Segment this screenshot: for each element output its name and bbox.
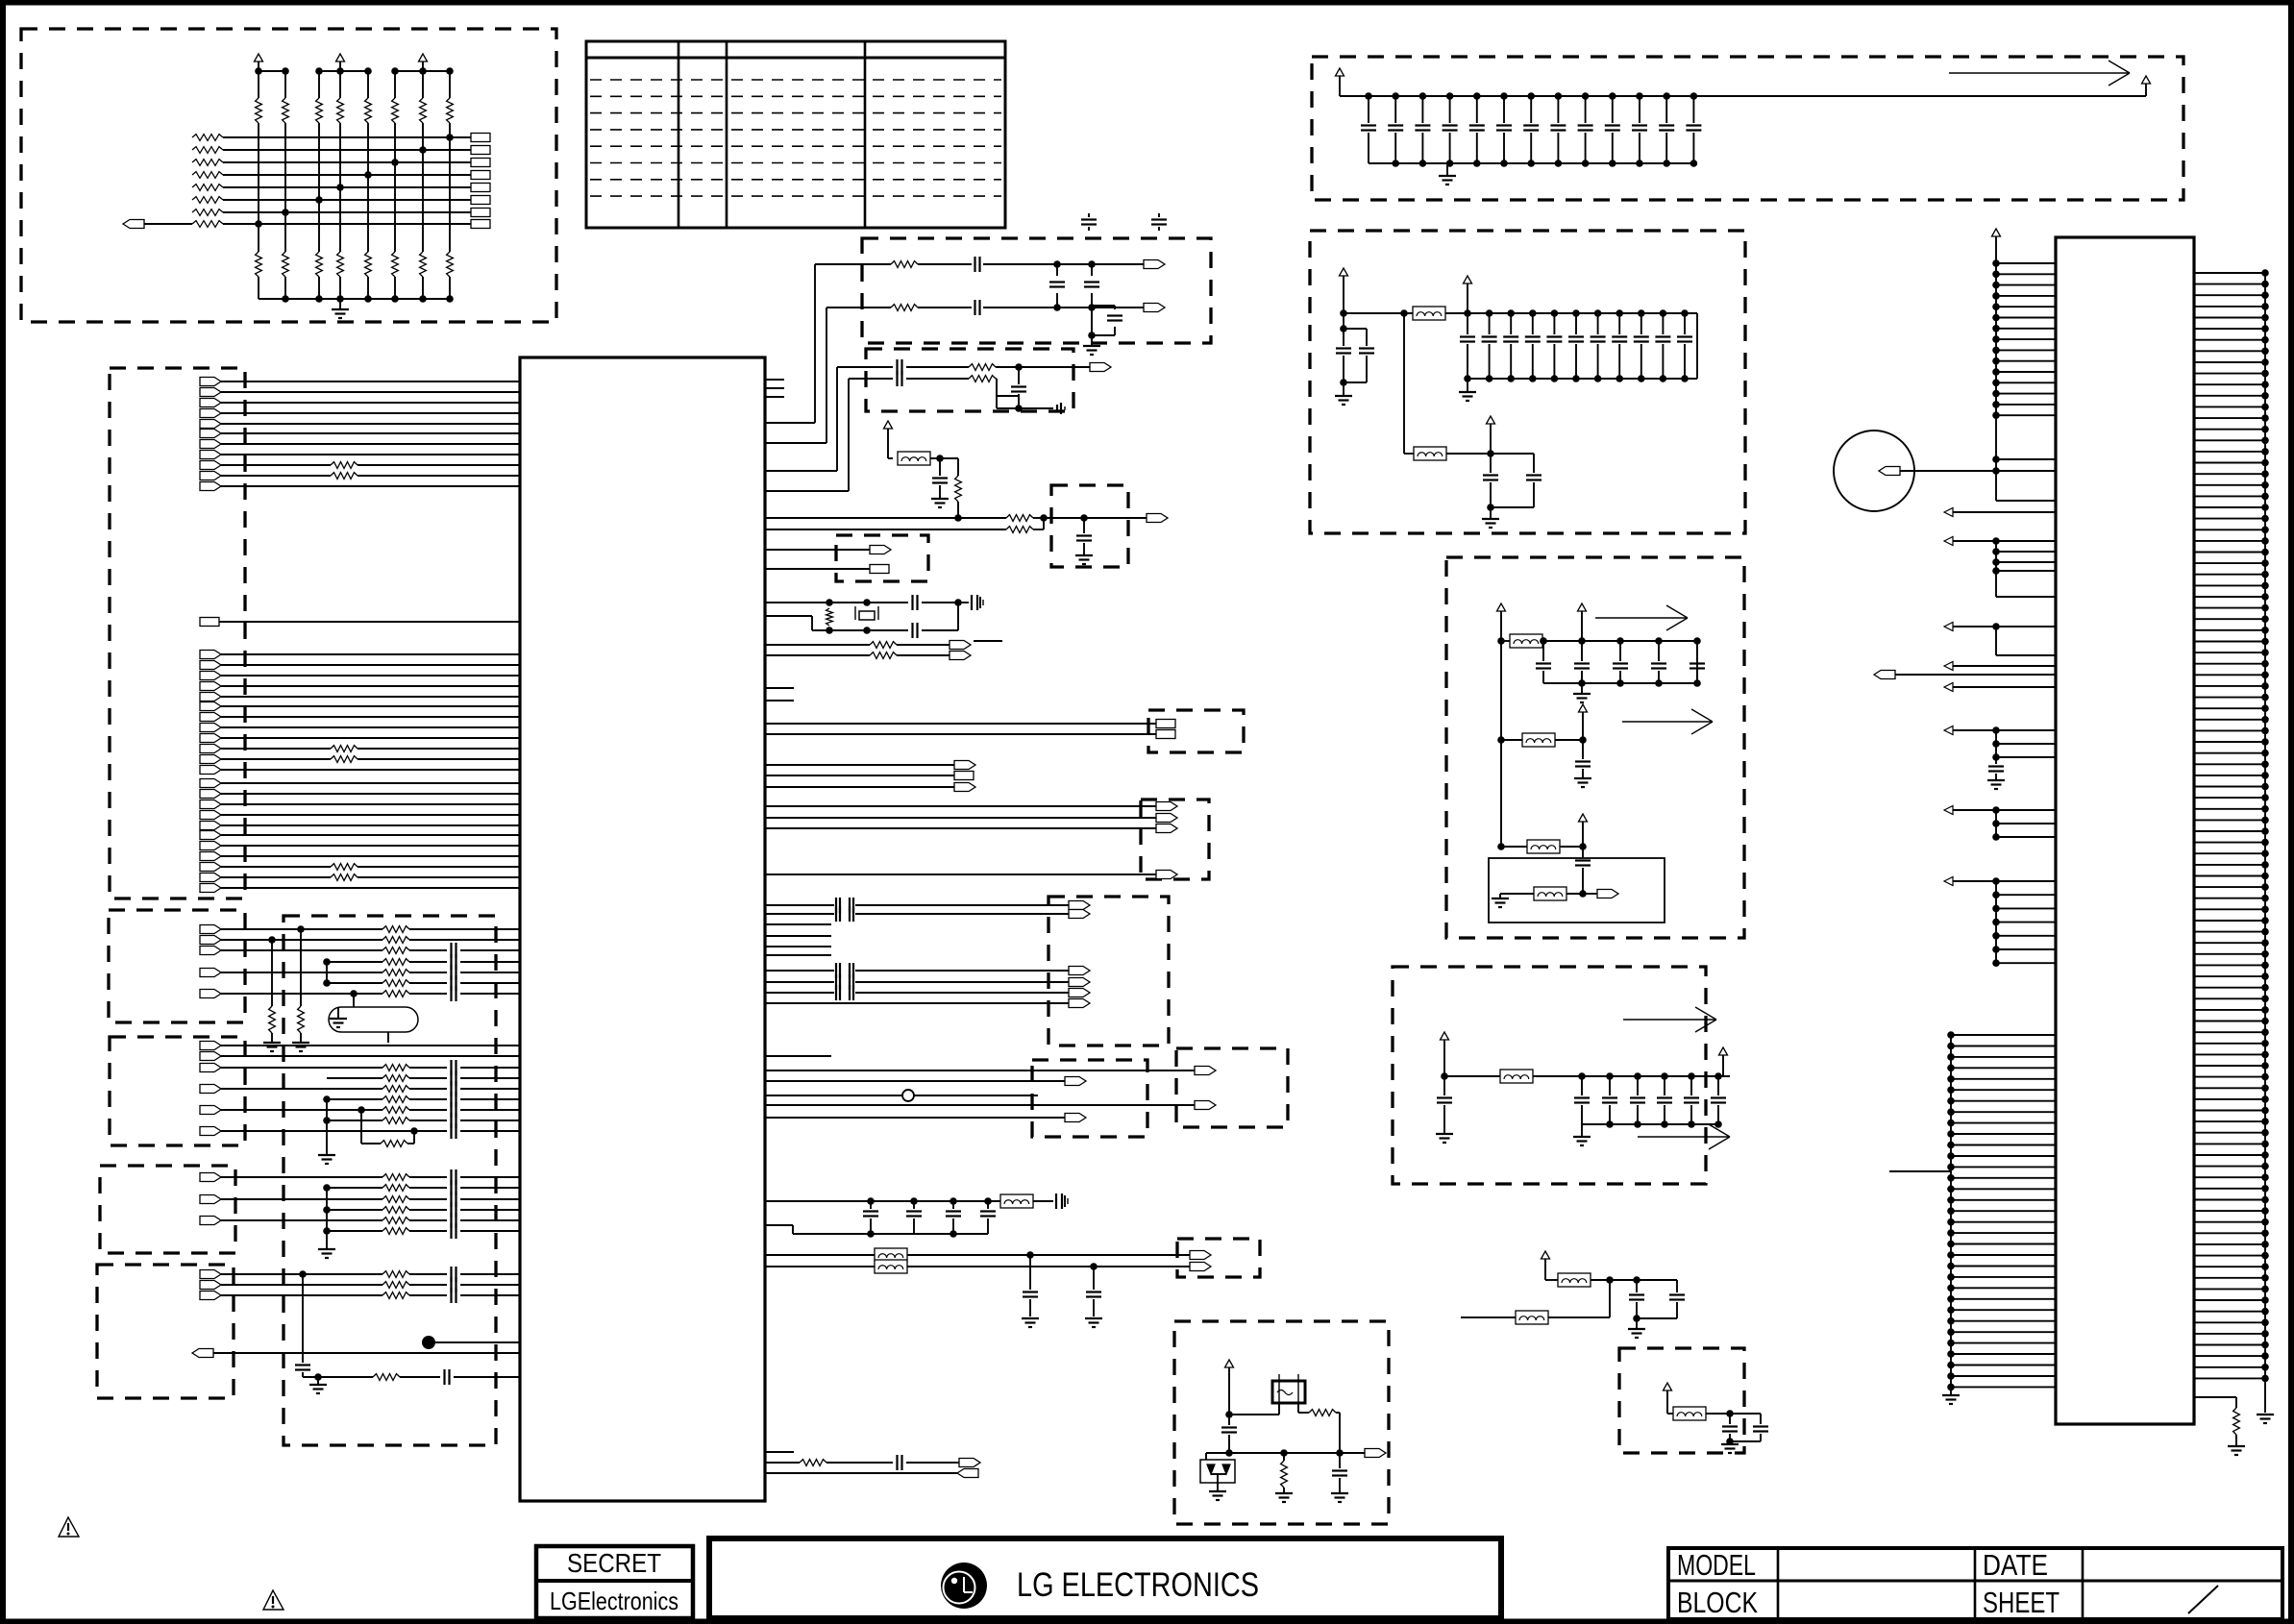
capacitor Cd1028 xyxy=(987,1201,989,1209)
pin JTAG1 xyxy=(1156,802,1177,811)
title table col1 xyxy=(1777,1548,1780,1619)
capacitor C109 xyxy=(1609,92,1616,100)
capacitor C218 xyxy=(1638,309,1645,317)
wire xyxy=(765,568,870,570)
pin JTAG3 xyxy=(1156,824,1177,833)
J1 lower pin 22 xyxy=(1951,1266,2056,1267)
connector pin B5 wire xyxy=(200,682,221,691)
J1 right pin 6 xyxy=(2194,328,2265,330)
wire rcv xyxy=(353,994,355,1007)
capacitor C68 xyxy=(1228,1415,1230,1425)
J1 right pin 71 xyxy=(2194,1053,2265,1055)
keypad connector pin 1 xyxy=(471,134,490,142)
J1 right pin 21 xyxy=(2194,495,2265,497)
ferrite bead FB220 xyxy=(1500,1070,1533,1083)
J1 left bus row16 xyxy=(1996,458,2056,460)
keypad column line C5 xyxy=(367,71,369,98)
keypad column line C6 xyxy=(394,71,396,98)
audio row A7 xyxy=(200,990,221,998)
J1 lower pin 8 xyxy=(1951,1111,2056,1113)
capacitor C255 xyxy=(1688,1072,1695,1080)
connector pin A2 wire xyxy=(200,388,221,397)
LG logo xyxy=(941,1562,987,1609)
pin audio-in L xyxy=(1144,260,1165,269)
revision table column line 2 xyxy=(726,41,728,228)
J1 right pin 89 xyxy=(2194,1255,2265,1257)
J1 right pin 1 xyxy=(2194,272,2265,274)
J1 right pin 68 xyxy=(2194,1021,2265,1022)
wire stub2 xyxy=(765,700,794,701)
J1 right pin 83 xyxy=(2194,1188,2265,1190)
svg-text:LGElectronics: LGElectronics xyxy=(550,1587,678,1615)
pin JTAG4 xyxy=(1156,871,1177,879)
capacitor C71 xyxy=(1029,1255,1031,1290)
main IC U1 baseband processor xyxy=(520,357,765,1501)
J1 lower pin 33 xyxy=(1951,1386,2056,1388)
wire row 539 xyxy=(765,517,1006,519)
node blob xyxy=(422,1336,435,1349)
pin JTAG2 xyxy=(1156,814,1177,823)
capacitor C219 xyxy=(1660,309,1667,317)
revision table header line xyxy=(586,57,1005,60)
J1 right pin 82 xyxy=(2194,1176,2265,1178)
pin TP2 xyxy=(950,652,971,660)
resistor R21 pulldown xyxy=(300,929,302,1006)
keypad row input pin xyxy=(123,220,144,229)
capacitor C110 xyxy=(1636,92,1643,100)
motor block boundary xyxy=(109,910,245,1022)
J1 right pin 34 xyxy=(2194,641,2265,643)
pin BT2 xyxy=(1190,1263,1211,1271)
J1 lower pin 11 xyxy=(1951,1144,2056,1146)
wire branch down xyxy=(1403,313,1405,454)
pin BT1 xyxy=(1190,1251,1211,1260)
J1 right pin 50 xyxy=(2194,819,2265,821)
ground mic xyxy=(317,1377,319,1385)
wire rtc node xyxy=(1225,1411,1233,1418)
pin KEY2 xyxy=(870,565,889,574)
filter rail bottom xyxy=(1468,378,1697,380)
J1 right pin 74 xyxy=(2194,1087,2265,1089)
capacitor C72 xyxy=(1093,1267,1095,1290)
J1 lower pin 1 xyxy=(1951,1034,2056,1036)
wire stub cam3 xyxy=(765,954,831,956)
ferrite bead FB62 xyxy=(875,1260,907,1273)
wire bt1b xyxy=(907,1254,1190,1256)
pmu rail bottom xyxy=(1543,682,1697,684)
J1 right pin 81 xyxy=(2194,1166,2265,1168)
capacitor C2110 xyxy=(1681,309,1689,317)
J1 right pin 60 xyxy=(2194,931,2265,933)
J1 right pin 22 xyxy=(2194,506,2265,508)
J1 right pin 7 xyxy=(2194,339,2265,341)
power arrow vib xyxy=(1542,1251,1550,1259)
title table frame xyxy=(1668,1548,2282,1619)
connector pin B7 wire xyxy=(200,702,221,711)
wire xyxy=(765,654,870,656)
audio amp U2 xyxy=(1489,858,1665,923)
J1 right pin 91 xyxy=(2194,1277,2265,1279)
connector pin C8 wire xyxy=(200,852,221,861)
capacitor C216 xyxy=(1594,309,1602,317)
power arrow pmu3 xyxy=(1579,704,1588,712)
warning symbol 2 xyxy=(263,1590,284,1610)
J1 left pin 15 xyxy=(1996,414,2056,416)
pin CAM4 xyxy=(1069,978,1090,987)
keypad column line C2 xyxy=(284,71,286,98)
connector pin B9 wire xyxy=(200,724,221,732)
capacitor C67 xyxy=(896,1455,898,1470)
J1 right pin 37 xyxy=(2194,674,2265,676)
capacitor Cd906 xyxy=(870,1201,872,1209)
power arrow J1 xyxy=(1992,229,2001,236)
power arrow filter3 xyxy=(1487,416,1495,424)
capacitor C232 xyxy=(1616,637,1624,645)
crystal X2 xyxy=(1272,1381,1305,1403)
keypad connector pin 2 xyxy=(471,146,490,155)
resistor R57 xtal xyxy=(826,608,833,626)
J1 left pin 12 xyxy=(1996,381,2056,383)
J1 right pin 59 xyxy=(2194,920,2265,922)
crystal X1 xyxy=(859,611,875,620)
resistor R20 pulldown xyxy=(271,940,273,1006)
capacitor C102 xyxy=(1419,92,1427,100)
connector pin B12 wire xyxy=(200,755,221,764)
wire xyxy=(765,644,870,646)
capacitor C233 xyxy=(1655,637,1663,645)
wire cam7 xyxy=(765,1002,1069,1004)
keypad junction node 2 xyxy=(282,209,289,216)
power arrow sens xyxy=(1664,1383,1672,1390)
wire mic xyxy=(1900,470,2056,472)
connector pin A10 wire xyxy=(200,472,221,480)
revision table row line 7 xyxy=(590,179,1001,181)
wire bt2 xyxy=(765,1266,875,1267)
title table col3 xyxy=(2082,1548,2084,1619)
wire jtag3 xyxy=(765,827,1156,829)
svg-text:LG ELECTRONICS: LG ELECTRONICS xyxy=(1017,1566,1259,1604)
ferrite bead FB61 xyxy=(875,1248,907,1262)
audio row C5 xyxy=(200,1217,221,1225)
J1 left pin 8 xyxy=(1996,338,2056,340)
resistor R17 keypad row xyxy=(192,221,223,228)
capacitor C241 xyxy=(1582,847,1584,858)
capacitor C234 xyxy=(1693,637,1701,645)
connector pin A6 wire xyxy=(200,430,221,438)
key block boundary xyxy=(836,535,928,581)
resistor R14 keypad row xyxy=(192,185,223,191)
J1 left pin 3 xyxy=(1996,284,2056,286)
J1 right pin 4 xyxy=(2194,306,2265,308)
ground C62 xyxy=(1075,554,1093,556)
J1 right pin 92 xyxy=(2194,1288,2265,1290)
J1 right pin 99 xyxy=(2194,1366,2265,1368)
ground earjack xyxy=(318,1154,335,1156)
uart block boundary xyxy=(1148,710,1244,752)
connector pin A11 wire xyxy=(200,482,221,491)
J1 left bus upper xyxy=(1995,263,1997,501)
capacitor C260 xyxy=(1636,1280,1638,1292)
keypad bottom rail xyxy=(259,298,450,300)
J1 right pin 48 xyxy=(2194,797,2265,799)
J1 right bus xyxy=(2264,273,2266,1413)
J1 lower pin 19 xyxy=(1951,1232,2056,1234)
wire stub col xyxy=(326,962,328,983)
capacitor C270 xyxy=(1729,1414,1731,1424)
wire bot1 xyxy=(765,1462,800,1464)
ground J1 bus xyxy=(2257,1414,2274,1415)
keypad junction node 8 xyxy=(446,134,454,141)
J1 right pin 31 xyxy=(2194,607,2265,609)
ground C61 xyxy=(931,498,949,500)
connector pin A7 wire xyxy=(200,440,221,449)
pin AMP xyxy=(1583,893,1597,895)
wire stub bot xyxy=(765,1451,794,1453)
J1 right pin 27 xyxy=(2194,562,2265,564)
J1 right pin 35 xyxy=(2194,652,2265,653)
J1 right pin 70 xyxy=(2194,1043,2265,1045)
capacitor C40 xyxy=(295,1364,310,1366)
ferrite bead FB231 xyxy=(1516,1311,1548,1324)
connector pin C7 wire xyxy=(200,842,221,850)
capacitor C57 xyxy=(896,359,898,375)
mic bias row xyxy=(303,1376,373,1378)
net arrow out2 xyxy=(1622,721,1713,723)
ground rcv xyxy=(337,1007,339,1019)
wire stub cam2 xyxy=(765,946,831,947)
wire xyxy=(765,549,870,551)
J1 lower pin 30 xyxy=(1951,1353,2056,1355)
wire sens xyxy=(1706,1413,1730,1415)
wire xyxy=(765,723,1156,725)
capacitor C64 xyxy=(911,623,913,638)
J1 left pin 14 xyxy=(1996,404,2056,406)
J1 left pin 6 xyxy=(1996,317,2056,319)
wire stub t3 xyxy=(765,396,784,398)
revision table row line 3 xyxy=(590,112,1001,114)
power arrow keypad1 xyxy=(255,54,263,62)
J1 right pin 73 xyxy=(2194,1076,2265,1078)
wire J1 res xyxy=(2194,1396,2236,1398)
resistor R51 xyxy=(891,305,918,311)
pin audio-out1 xyxy=(1090,363,1111,372)
capacitor Cd992 xyxy=(952,1201,954,1209)
wire xyxy=(888,457,893,459)
ground C240 xyxy=(1574,777,1591,779)
capacitor C201 xyxy=(1340,309,1347,317)
revision table column line 3 xyxy=(864,41,867,228)
J1 right pin 55 xyxy=(2194,875,2265,877)
wire bt1 xyxy=(765,1254,875,1256)
audio row D1 xyxy=(200,1270,221,1279)
capacitor C69 xyxy=(1339,1453,1341,1468)
ground D1 xyxy=(1217,1483,1219,1491)
cap bank bottom rail xyxy=(1369,162,1693,164)
capacitor C252 xyxy=(1606,1072,1614,1080)
svg-text:SHEET: SHEET xyxy=(1983,1586,2060,1619)
pin TP1 xyxy=(950,641,971,650)
J1 right pin 80 xyxy=(2194,1154,2265,1156)
connector pin B4 wire xyxy=(200,672,221,680)
wire xyxy=(765,775,954,776)
J1 lower pin 27 xyxy=(1951,1320,2056,1322)
net group 3 xyxy=(1944,623,1953,631)
audio row D3 xyxy=(200,1292,221,1300)
pin USB2 xyxy=(1195,1101,1216,1110)
power arrow U1-an xyxy=(884,421,893,429)
J1 lower pin 9 xyxy=(1951,1122,2056,1124)
power arrow rtc xyxy=(1225,1360,1234,1367)
keypad top rail group1 xyxy=(259,70,285,72)
ground filter-in xyxy=(1343,382,1344,396)
capacitor C251 xyxy=(1578,1072,1586,1080)
capacitor C55 xyxy=(1091,264,1093,276)
wire xyxy=(996,396,998,408)
wire jtag2 xyxy=(765,817,1156,819)
J1 lower pin 32 xyxy=(1951,1375,2056,1377)
ferrite bead FB213 xyxy=(1534,887,1566,900)
keypad junction node 4 xyxy=(336,184,344,191)
J1 right pin 75 xyxy=(2194,1098,2265,1100)
J1 right pin 24 xyxy=(2194,529,2265,530)
capacitor C107 xyxy=(1555,92,1563,100)
J1 right pin 94 xyxy=(2194,1311,2265,1313)
wire xyxy=(765,786,954,788)
connector pin C5 wire xyxy=(200,822,221,830)
J1 right pin 49 xyxy=(2194,808,2265,810)
connector pin C3 wire xyxy=(200,800,221,809)
power distribution block boundary xyxy=(1312,57,2183,200)
ferrite bead FB210 xyxy=(1510,634,1542,648)
connector pin C11 wire xyxy=(200,884,221,893)
wire bend3 xyxy=(765,470,837,472)
capacitor C213 xyxy=(1529,309,1537,317)
charger block boundary xyxy=(1393,967,1706,1184)
usb block boundary xyxy=(1176,1048,1288,1127)
wire xyxy=(765,733,1156,735)
capacitor C202 xyxy=(1344,328,1367,330)
keypad column line C1 xyxy=(258,71,259,98)
wire stub1 xyxy=(765,687,794,689)
capacitor C54 xyxy=(1056,264,1058,276)
pin CAM1 xyxy=(1069,901,1090,910)
J1 right pin 100 xyxy=(2194,1377,2265,1379)
capacitor C51 stub xyxy=(1158,213,1160,217)
wire stub t2 xyxy=(765,387,784,389)
J1 lower pin 26 xyxy=(1951,1309,2056,1311)
J1 lower pin 21 xyxy=(1951,1254,2056,1256)
revision table column line 1 xyxy=(678,41,680,228)
wire xyxy=(930,457,958,459)
capacitor C222 xyxy=(1491,453,1534,455)
ground C250 xyxy=(1443,1126,1445,1134)
wire tf2 xyxy=(765,1117,1065,1119)
VBAT rail wire xyxy=(1340,95,2146,97)
revision table frame xyxy=(586,41,1005,228)
J1 right pin 15 xyxy=(2194,429,2265,431)
connector pin B6 wire xyxy=(200,693,221,701)
pin BOT1 xyxy=(959,1459,980,1467)
resistor R10 keypad row xyxy=(192,135,223,141)
wire J1 ext xyxy=(1889,1170,1951,1172)
pmu block boundary xyxy=(1446,557,1744,938)
J1 right pin 53 xyxy=(2194,852,2265,854)
J1 lower pin 16 xyxy=(1951,1199,2056,1201)
junction col mic xyxy=(302,1274,304,1363)
capacitor C59 xyxy=(1018,367,1020,384)
resistor R59 xyxy=(870,652,897,659)
revision table row line 8 xyxy=(590,195,1001,197)
net group 7 xyxy=(1944,806,1953,815)
J1 right pin 36 xyxy=(2194,663,2265,665)
wire stub cam1 xyxy=(765,935,831,937)
warning symbol 1 xyxy=(59,1517,79,1537)
J1 lower pin 7 xyxy=(1951,1100,2056,1102)
pin CAM3 xyxy=(1069,967,1090,975)
board connector J1 xyxy=(2056,237,2194,1424)
J1 right pin 26 xyxy=(2194,552,2265,554)
ferrite bead FB212 xyxy=(1527,840,1560,853)
keypad column line C7 xyxy=(422,71,424,98)
capacitor C211 xyxy=(1486,309,1493,317)
wire row 551 xyxy=(765,529,1006,530)
pin audio-in R xyxy=(1144,304,1165,312)
J1 right pin 64 xyxy=(2194,975,2265,977)
keypad connector pin 8 xyxy=(471,220,490,229)
J1 right pin 30 xyxy=(2194,596,2265,598)
audio row B4 xyxy=(327,1077,382,1079)
speaker block boundary xyxy=(100,1166,235,1253)
J1 left pin 13 xyxy=(1996,393,2056,395)
wire cam3 xyxy=(765,970,834,972)
ground speaker xyxy=(318,1248,335,1250)
junction xyxy=(268,936,276,944)
wire bend2 xyxy=(765,442,826,444)
connector pin C10 wire xyxy=(200,874,221,882)
capacitor C111 xyxy=(1663,92,1670,100)
connector pin C9 wire xyxy=(200,863,221,872)
capacitor C210 xyxy=(1464,309,1471,317)
bt block boundary xyxy=(1177,1239,1260,1277)
wire xyxy=(1446,453,1491,455)
pin KEY1 xyxy=(870,546,891,554)
power arrow VBAT xyxy=(1336,68,1344,76)
J1 right pin 54 xyxy=(2194,864,2265,866)
net arrow chg2 xyxy=(1638,1136,1730,1138)
audio row A2 xyxy=(200,936,221,945)
power arrow filter-in xyxy=(1340,268,1348,276)
ground R20 xyxy=(263,1042,281,1044)
J1 right pin 86 xyxy=(2194,1221,2265,1223)
pin SIM xyxy=(1147,514,1168,523)
pin UART2 xyxy=(1156,730,1175,739)
wire jtag1 xyxy=(765,805,1156,807)
J1 right pin 13 xyxy=(2194,406,2265,407)
J1 right pin 93 xyxy=(2194,1299,2265,1301)
J1 lower pin 29 xyxy=(1951,1342,2056,1344)
keypad connector pin 7 xyxy=(471,209,490,217)
mic block boundary xyxy=(97,1265,234,1398)
keypad connector pin 5 xyxy=(471,184,490,192)
J1 lower pin 23 xyxy=(1951,1276,2056,1278)
J1 lower pin 6 xyxy=(1951,1089,2056,1091)
wire cam2 xyxy=(765,913,834,915)
ground filter bank xyxy=(1467,379,1468,392)
resistor R30 xyxy=(413,1131,415,1144)
J1 right pin 97 xyxy=(2194,1344,2265,1346)
ferrite bead FB202 xyxy=(1414,447,1446,460)
ground cap bank xyxy=(1446,163,1448,176)
